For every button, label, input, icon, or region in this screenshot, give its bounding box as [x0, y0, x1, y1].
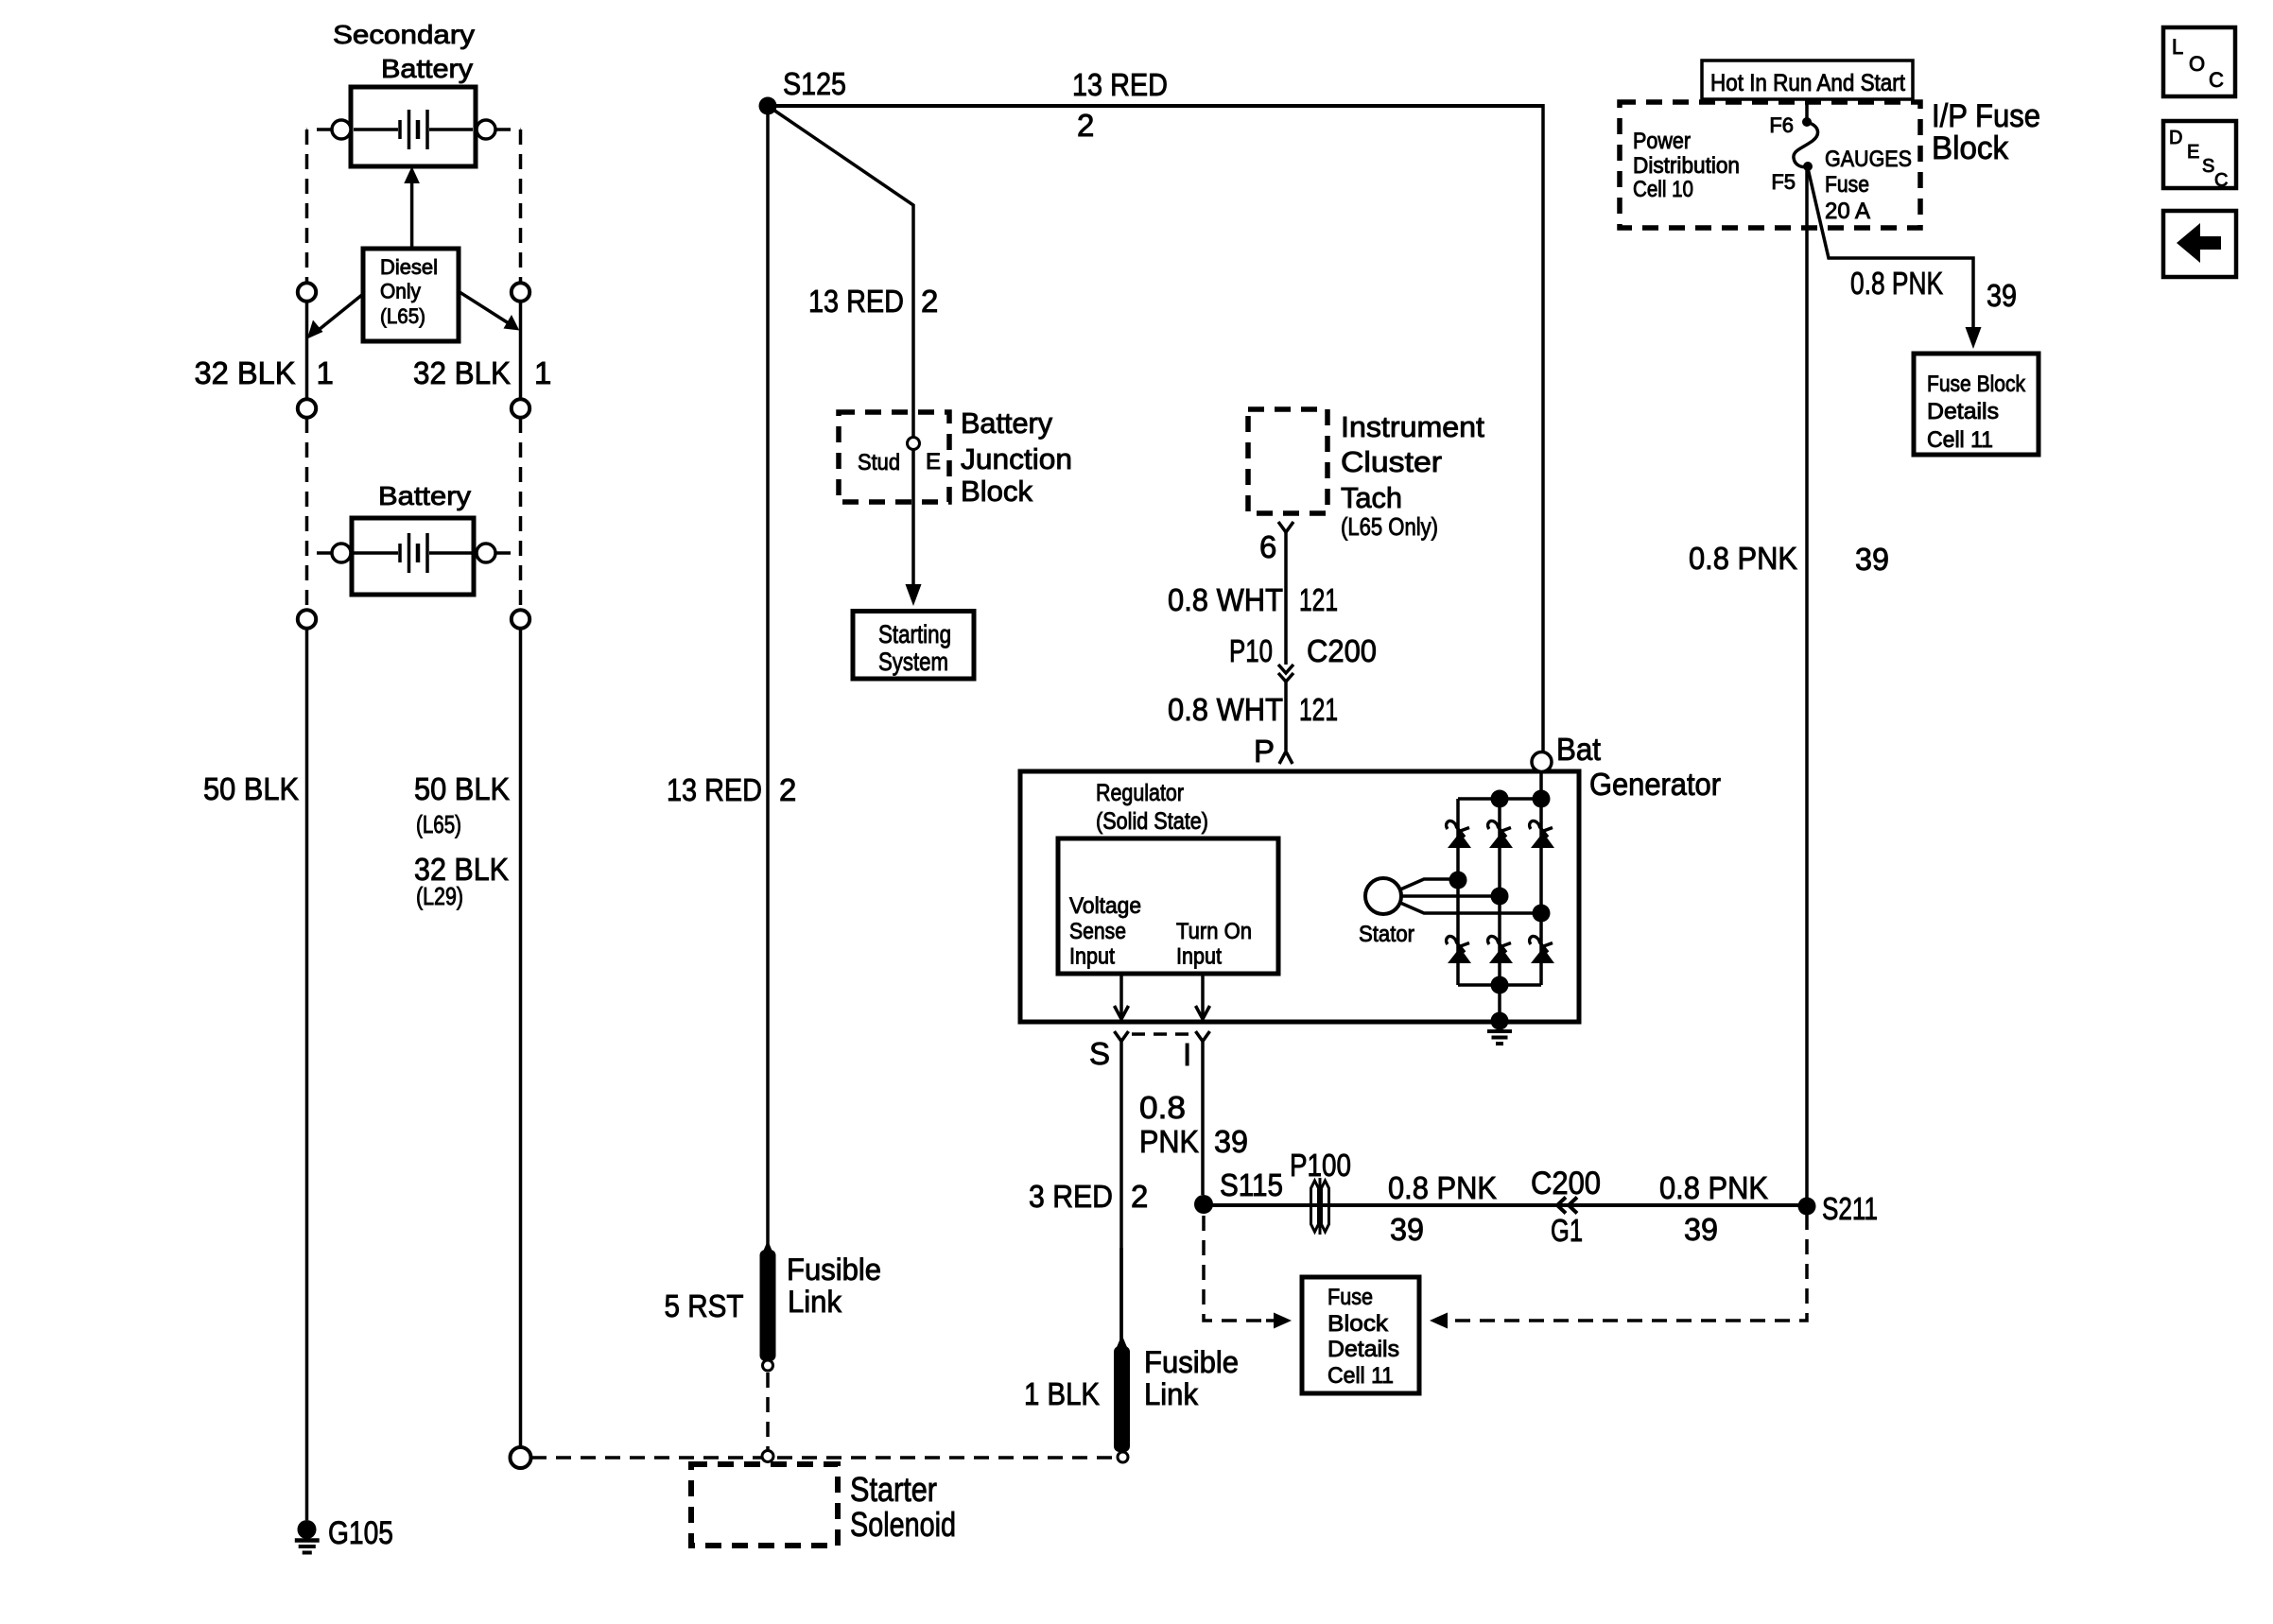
- svg-text:O: O: [2189, 52, 2205, 76]
- svg-text:Solenoid: Solenoid: [850, 1505, 956, 1544]
- svg-text:39: 39: [1214, 1124, 1248, 1159]
- wire 3 RED S sense: [1029, 1042, 1148, 1341]
- svg-text:0.8 PNK: 0.8 PNK: [1388, 1170, 1497, 1205]
- connector circle right run 1: [512, 283, 529, 301]
- label Power Distribution Cell 10: [1633, 129, 1740, 202]
- wire dashed stub B2 right: [495, 551, 521, 555]
- label 0.8 PNK 39 left of C200: [1388, 1170, 1497, 1247]
- arrow Diesel Only to left wire: [307, 294, 364, 339]
- svg-text:E: E: [2187, 142, 2199, 163]
- arrow regulator S output: [1115, 974, 1129, 1019]
- svg-text:Junction: Junction: [961, 443, 1072, 475]
- diode D1 upper left: [1447, 821, 1471, 848]
- connector circle left run 1: [298, 283, 316, 301]
- svg-text:0.8 PNK: 0.8 PNK: [1659, 1170, 1768, 1205]
- svg-text:121: 121: [1299, 692, 1338, 727]
- svg-text:32 BLK: 32 BLK: [413, 355, 511, 390]
- svg-text:2: 2: [1131, 1179, 1148, 1214]
- svg-text:Starter: Starter: [850, 1470, 937, 1509]
- junction dot bottom bus: [1491, 976, 1509, 994]
- arrow Diesel Only to right wire: [458, 291, 519, 331]
- svg-text:Diesel: Diesel: [380, 255, 438, 279]
- wire 0.8 PNK horizontal: [1204, 1203, 1807, 1207]
- wire dashed right run upper: [519, 130, 523, 283]
- label Turn On Input: [1176, 919, 1252, 970]
- svg-text:Only: Only: [380, 280, 421, 303]
- svg-text:1 BLK: 1 BLK: [1024, 1376, 1100, 1411]
- battery B2 box: [352, 518, 474, 595]
- diode D6 lower right: [1530, 936, 1554, 963]
- diode D4 lower left: [1447, 936, 1471, 963]
- junction dot top bus right: [1533, 790, 1551, 808]
- svg-text:Battery: Battery: [961, 407, 1053, 440]
- connector circle solenoid top: [762, 1451, 773, 1462]
- battery B2 symbol: [354, 533, 473, 573]
- icon back arrow box: [2163, 211, 2236, 277]
- connector circle left run 2: [298, 399, 316, 417]
- label Regulator (Solid State): [1096, 780, 1208, 835]
- wire dashed stub B1 right: [495, 128, 521, 131]
- icon DESC box: [2163, 121, 2236, 191]
- dashed connector line S-I: [1132, 1032, 1192, 1036]
- arrow regulator I output: [1196, 974, 1210, 1019]
- svg-text:Fusible: Fusible: [1144, 1345, 1239, 1379]
- arrow into fuse block details left: [1266, 1313, 1292, 1329]
- wire F5 branch to fuse details: [1808, 168, 2017, 328]
- svg-text:5 RST: 5 RST: [665, 1288, 744, 1323]
- splice S125: [759, 66, 847, 115]
- svg-text:Input: Input: [1069, 944, 1115, 970]
- svg-text:39: 39: [1855, 542, 1889, 577]
- box Starting System: [853, 612, 974, 680]
- connector C200 G1 inline: [1531, 1166, 1601, 1248]
- svg-text:Fusible: Fusible: [787, 1253, 881, 1287]
- svg-text:Regulator: Regulator: [1096, 780, 1184, 806]
- svg-text:Fuse: Fuse: [1825, 172, 1869, 198]
- svg-text:G105: G105: [328, 1515, 393, 1551]
- terminal circle battery cable end: [511, 1447, 531, 1468]
- svg-text:(Solid State): (Solid State): [1096, 808, 1208, 835]
- svg-text:(L65): (L65): [416, 810, 461, 838]
- dashed box Battery Junction Block: [839, 412, 949, 502]
- splice S211: [1798, 1191, 1879, 1226]
- svg-text:C200: C200: [1531, 1166, 1601, 1201]
- wire dashed 5RST link to solenoid: [766, 1373, 770, 1450]
- dashed box Starter Solenoid: [691, 1464, 956, 1546]
- label IP Fuse Block: [1932, 98, 2040, 166]
- terminal circle Bat: [1532, 752, 1552, 772]
- svg-text:Distribution: Distribution: [1633, 153, 1740, 179]
- svg-text:System: System: [878, 648, 948, 676]
- arrow into fuse block details right: [1430, 1313, 1448, 1329]
- label Battery Junction Block: [961, 407, 1072, 508]
- junction dot stator right: [1533, 905, 1551, 923]
- terminal circle B2 right: [477, 544, 495, 562]
- wire S125 diagonal to junction block: [768, 106, 913, 584]
- svg-text:D: D: [2169, 128, 2182, 148]
- svg-text:20 A: 20 A: [1825, 199, 1870, 224]
- rail right: [1539, 772, 1543, 985]
- svg-text:39: 39: [1684, 1212, 1718, 1247]
- svg-text:Battery: Battery: [381, 54, 473, 83]
- icon LOC box: [2163, 27, 2235, 96]
- connector P100 grommet: [1290, 1148, 1351, 1235]
- label 0.8 PNK 39 right of C200: [1659, 1170, 1768, 1247]
- wire dashed bottom horizontal: [531, 1456, 1118, 1460]
- svg-text:Sense: Sense: [1069, 919, 1126, 944]
- svg-text:Link: Link: [1144, 1377, 1199, 1411]
- svg-text:P10: P10: [1229, 633, 1273, 668]
- connector circle right run 3: [512, 610, 529, 628]
- svg-text:Tach: Tach: [1341, 482, 1402, 514]
- junction dot stator left: [1449, 872, 1467, 890]
- box Fuse Block Details bottom: [1302, 1277, 1419, 1393]
- terminal circle B1 left: [332, 120, 351, 139]
- connector chevron I: [1183, 1031, 1210, 1072]
- box regulator inner: [1058, 838, 1278, 974]
- battery B1 Secondary Battery label: [333, 20, 475, 83]
- svg-text:C: C: [2209, 68, 2224, 92]
- svg-text:S211: S211: [1822, 1191, 1878, 1226]
- svg-text:Hot In Run And Start: Hot In Run And Start: [1710, 70, 1905, 96]
- wire dashed right run mid: [519, 418, 523, 610]
- svg-text:Turn On: Turn On: [1176, 919, 1252, 944]
- svg-text:I: I: [1183, 1037, 1191, 1072]
- label 32 BLK 1 right: [413, 355, 551, 390]
- svg-text:Stator: Stator: [1359, 922, 1414, 947]
- svg-text:2: 2: [1077, 108, 1094, 143]
- wire 0.8 WHT lower: [1168, 682, 1338, 751]
- svg-text:(L29): (L29): [416, 882, 463, 910]
- svg-text:0.8 PNK: 0.8 PNK: [1689, 541, 1797, 576]
- ground generator case: [1487, 1012, 1512, 1045]
- fusible link 1 BLK: [1024, 1248, 1239, 1462]
- svg-text:13 RED: 13 RED: [808, 284, 904, 319]
- svg-text:Power: Power: [1633, 129, 1691, 154]
- svg-text:F5: F5: [1771, 170, 1796, 194]
- connector circle left run 3: [298, 610, 316, 628]
- svg-text:Cluster: Cluster: [1341, 446, 1442, 478]
- svg-text:S: S: [2202, 156, 2214, 177]
- svg-text:Link: Link: [788, 1285, 842, 1319]
- fuse GAUGES 20A F6-F5: [1769, 113, 1912, 224]
- wire to generator ground: [1498, 985, 1501, 1019]
- svg-text:Details: Details: [1327, 1337, 1399, 1362]
- generator bottom bus: [1458, 983, 1541, 987]
- wire 50 BLK left long: [305, 629, 309, 1520]
- battery B1 Secondary Battery box: [351, 87, 476, 166]
- svg-text:13 RED: 13 RED: [1072, 67, 1168, 102]
- stator symbol: [1365, 878, 1537, 914]
- connector chevron pin 6: [1259, 522, 1293, 564]
- wire 0.8 WHT upper: [1168, 532, 1338, 665]
- junction dot stator mid: [1491, 888, 1509, 906]
- svg-text:GAUGES: GAUGES: [1825, 147, 1912, 172]
- connector chevron pin P: [1254, 734, 1293, 769]
- svg-text:Cell 11: Cell 11: [1327, 1363, 1394, 1389]
- connector stud E circle: [908, 438, 920, 450]
- svg-text:1: 1: [317, 355, 334, 390]
- box Diesel Only (L65): [363, 249, 459, 341]
- connector C200 P10 inline: [1229, 633, 1377, 682]
- junction dot top bus mid: [1491, 790, 1509, 808]
- svg-text:0.8 WHT: 0.8 WHT: [1168, 582, 1283, 617]
- svg-text:39: 39: [1987, 278, 2017, 313]
- svg-text:39: 39: [1390, 1212, 1424, 1247]
- battery B1 symbol: [354, 110, 473, 149]
- label Instrument Cluster Tach: [1341, 411, 1485, 541]
- svg-text:S125: S125: [783, 66, 846, 101]
- arrow Diesel Only to B1: [404, 166, 420, 249]
- wire 50 BLK right long: [519, 629, 523, 1447]
- wire 0.8 PNK I turn-on: [1139, 1042, 1248, 1196]
- wire dashed left run mid: [305, 418, 309, 610]
- diode D2 upper mid: [1488, 821, 1513, 848]
- svg-text:E: E: [926, 449, 941, 475]
- rail mid: [1498, 799, 1501, 985]
- svg-text:S: S: [1089, 1036, 1110, 1071]
- svg-text:6: 6: [1259, 529, 1276, 564]
- wire 32 BLK left segment: [305, 302, 309, 400]
- svg-text:1: 1: [534, 355, 551, 390]
- arrow into Starting System: [906, 584, 922, 606]
- svg-text:Instrument: Instrument: [1341, 411, 1485, 443]
- wire hot feed to F6: [1805, 99, 1809, 118]
- svg-text:Block: Block: [1327, 1311, 1389, 1337]
- splice S115: [1194, 1167, 1283, 1214]
- svg-text:Starting: Starting: [878, 620, 951, 648]
- wire dashed stub B1 left: [307, 128, 333, 131]
- wire 13 RED S125 down: [667, 106, 796, 1248]
- rail left: [1456, 799, 1460, 985]
- svg-text:0.8 WHT: 0.8 WHT: [1168, 692, 1283, 727]
- label 13 RED 2 diagonal branch: [808, 284, 938, 319]
- svg-text:32 BLK: 32 BLK: [195, 355, 296, 390]
- svg-text:Cell 11: Cell 11: [1927, 427, 1993, 453]
- svg-text:2: 2: [779, 772, 796, 807]
- connector chevron S: [1089, 1031, 1129, 1071]
- dashed box IP Fuse Block: [1620, 102, 1920, 228]
- svg-text:Block: Block: [1932, 130, 2009, 166]
- svg-text:PNK: PNK: [1139, 1124, 1199, 1159]
- svg-text:50 BLK: 50 BLK: [414, 771, 510, 806]
- svg-text:0.8: 0.8: [1139, 1090, 1186, 1125]
- label 32 BLK (L29) right: [414, 852, 509, 910]
- svg-text:Details: Details: [1927, 399, 1999, 424]
- diode D3 upper right: [1530, 821, 1554, 848]
- svg-text:I/P Fuse: I/P Fuse: [1932, 98, 2040, 134]
- svg-text:(L65): (L65): [380, 304, 425, 328]
- svg-text:C: C: [2214, 170, 2228, 191]
- svg-text:Battery: Battery: [378, 481, 471, 510]
- svg-text:G1: G1: [1551, 1213, 1583, 1248]
- label 50 BLK (L65) right: [414, 771, 510, 838]
- svg-text:Voltage: Voltage: [1069, 893, 1141, 919]
- wire dashed left run upper: [305, 130, 309, 283]
- svg-text:Fuse: Fuse: [1327, 1285, 1373, 1310]
- svg-text:(L65 Only): (L65 Only): [1341, 512, 1438, 541]
- svg-text:0.8 PNK: 0.8 PNK: [1850, 266, 1943, 301]
- svg-text:13 RED: 13 RED: [667, 772, 762, 807]
- wire 13 RED down to Bat: [1541, 104, 1545, 752]
- label 32 BLK 1 left: [195, 355, 334, 390]
- svg-text:C200: C200: [1307, 633, 1377, 668]
- box Hot In Run And Start: [1702, 60, 1913, 99]
- terminal circle B2 left: [332, 544, 351, 562]
- svg-text:Block: Block: [961, 475, 1033, 508]
- svg-text:2: 2: [921, 284, 938, 319]
- diode D5 lower mid: [1488, 936, 1513, 963]
- svg-text:Secondary: Secondary: [333, 20, 475, 49]
- wire 32 BLK right segment: [519, 302, 523, 400]
- wire 0.8 PNK F5 to S211: [1689, 169, 1889, 1198]
- wire dashed stub B2 left: [307, 551, 333, 555]
- svg-text:Bat: Bat: [1556, 732, 1601, 767]
- dashed box Instrument Cluster Tach: [1248, 409, 1327, 513]
- svg-text:3 RED: 3 RED: [1029, 1179, 1113, 1214]
- ground G105: [295, 1515, 393, 1553]
- dashed wire S211 to fuse block details: [1452, 1215, 1807, 1321]
- svg-text:P100: P100: [1290, 1148, 1351, 1183]
- svg-text:P: P: [1254, 734, 1275, 769]
- svg-text:F6: F6: [1769, 113, 1794, 137]
- svg-text:Cell 10: Cell 10: [1633, 177, 1693, 202]
- svg-text:50 BLK: 50 BLK: [203, 771, 299, 806]
- connector circle right run 2: [512, 399, 529, 417]
- svg-text:121: 121: [1299, 582, 1338, 617]
- label Voltage Sense Input: [1069, 893, 1141, 970]
- wire 13 RED top horizontal: [768, 67, 1543, 143]
- arrow into fuse block details top: [1966, 327, 1982, 349]
- generator top bus: [1458, 797, 1541, 801]
- box Fuse Block Details top: [1914, 354, 2039, 455]
- svg-text:Generator: Generator: [1589, 767, 1721, 802]
- fusible link 5 RST: [665, 1240, 882, 1371]
- svg-text:Input: Input: [1176, 944, 1222, 970]
- svg-text:S115: S115: [1220, 1167, 1283, 1202]
- box Generator: [1020, 771, 1579, 1022]
- svg-text:Fuse Block: Fuse Block: [1927, 371, 2026, 397]
- svg-text:L: L: [2172, 35, 2183, 59]
- dashed wire S115 to fuse block details: [1204, 1216, 1266, 1321]
- terminal circle B1 right: [477, 120, 495, 139]
- svg-text:Stud: Stud: [858, 450, 900, 475]
